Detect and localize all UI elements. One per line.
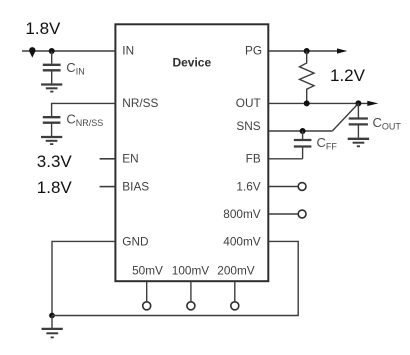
svg-text:1.8V: 1.8V — [25, 19, 61, 38]
wire OUT — [269, 102, 368, 104]
svg-text:1.2V: 1.2V — [330, 66, 366, 85]
capacitor CNR/SS — [43, 117, 61, 136]
wire 50mV stub — [146, 282, 148, 302]
svg-text:50mV: 50mV — [132, 263, 163, 277]
wire IN — [22, 50, 115, 52]
arrow OUT output — [367, 101, 378, 106]
wire SNS-OUT diagonal — [332, 103, 358, 131]
svg-text:400mV: 400mV — [223, 234, 261, 248]
svg-text:SNS: SNS — [236, 119, 260, 133]
capacitor CIN — [43, 51, 61, 83]
svg-text:1.6V: 1.6V — [236, 179, 260, 193]
wire GND to bottom rail — [52, 241, 115, 315]
svg-text:1.8V: 1.8V — [37, 178, 73, 197]
wire bottom rail — [52, 241, 298, 315]
arrow PG output — [337, 48, 347, 53]
capacitor COUT — [349, 103, 368, 137]
wire FB — [269, 158, 303, 160]
svg-text:OUT: OUT — [236, 96, 261, 110]
svg-text:EN: EN — [122, 152, 138, 166]
svg-text:BIAS: BIAS — [122, 180, 149, 194]
capacitor CFF — [294, 131, 312, 159]
junction dot PG/resistor — [304, 48, 310, 54]
terminal circle 100mV — [187, 302, 195, 310]
svg-text:CNR/SS: CNR/SS — [66, 112, 103, 129]
ground (below CIN) — [41, 85, 62, 92]
ground (below CNR/SS) — [41, 137, 62, 144]
wire EN stub — [100, 158, 116, 160]
wire 1.6V stub — [269, 186, 298, 188]
device U1 (Device box) — [115, 24, 268, 281]
svg-text:COUT: COUT — [373, 115, 402, 132]
svg-text:GND: GND — [122, 234, 148, 248]
terminal circle 1.6V — [298, 183, 306, 191]
terminal circle 800mV — [298, 210, 306, 218]
junction dot OUT/resistor — [304, 100, 310, 106]
svg-text:200mV: 200mV — [217, 263, 255, 277]
svg-text:CIN: CIN — [66, 60, 84, 77]
junction dot SNS/CFF — [300, 128, 306, 134]
terminal circle 200mV — [231, 302, 239, 310]
wire NR/SS — [52, 103, 116, 116]
wire 800mV stub — [269, 213, 298, 215]
svg-text:3.3V: 3.3V — [37, 152, 73, 171]
svg-text:CFF: CFF — [317, 135, 338, 152]
junction dot IN/CIN — [49, 48, 55, 54]
terminal circle 50mV — [143, 302, 151, 310]
svg-text:800mV: 800mV — [223, 207, 261, 221]
junction dot OUT node — [355, 100, 361, 106]
svg-text:100mV: 100mV — [172, 263, 210, 277]
wire 200mV stub — [234, 282, 236, 302]
svg-text:PG: PG — [245, 44, 262, 58]
svg-text:NR/SS: NR/SS — [122, 96, 158, 110]
svg-text:FB: FB — [246, 152, 261, 166]
resistor R1 (pull-up to 1.2V) — [300, 51, 315, 103]
wire SNS — [269, 130, 332, 132]
ground (below COUT) — [348, 139, 369, 147]
wire PG — [269, 50, 339, 52]
wire 100mV stub — [190, 282, 192, 302]
wire BIAS stub — [100, 186, 116, 188]
ground (main, bottom left) — [42, 316, 63, 338]
junction dot ground rail — [49, 313, 55, 319]
svg-text:IN: IN — [122, 44, 134, 58]
svg-text:Device: Device — [172, 55, 211, 69]
input terminal marker — [29, 47, 35, 58]
